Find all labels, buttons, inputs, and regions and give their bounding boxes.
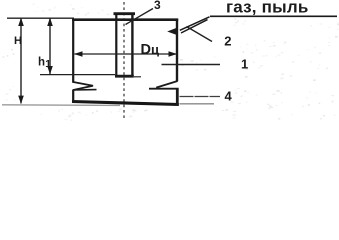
svg-text:3: 3 (154, 0, 161, 12)
svg-text:H: H (14, 35, 22, 47)
svg-text:газ, пыль: газ, пыль (226, 0, 308, 17)
svg-text:1: 1 (241, 56, 248, 71)
svg-text:1: 1 (45, 58, 51, 70)
svg-text:h: h (38, 56, 45, 68)
svg-text:4: 4 (225, 89, 233, 104)
svg-text:2: 2 (224, 33, 231, 48)
svg-text:Dц: Dц (141, 42, 159, 58)
